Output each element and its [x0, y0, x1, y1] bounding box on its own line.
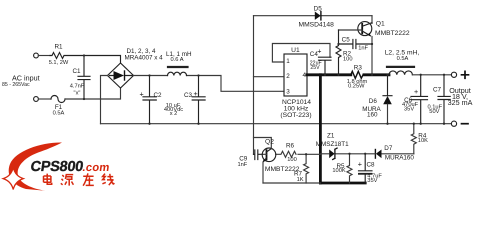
resistor R7	[304, 154, 309, 183]
svg-text:50V: 50V	[429, 109, 439, 115]
svg-text:4.7nF: 4.7nF	[70, 83, 85, 89]
svg-text:+: +	[140, 89, 144, 98]
svg-text:325 mA: 325 mA	[448, 98, 473, 107]
capacitor C5	[339, 40, 373, 49]
svg-text:Z1: Z1	[327, 132, 335, 139]
svg-text:Q2: Q2	[265, 139, 274, 146]
fuse F1	[51, 96, 65, 103]
logo chinese 线	[102, 174, 114, 186]
IC U1 NCP1014	[284, 54, 307, 96]
capacitor C4	[319, 57, 332, 75]
svg-text:160: 160	[367, 111, 378, 118]
svg-text:(SOT-223): (SOT-223)	[280, 112, 311, 119]
svg-text:0.6 A: 0.6 A	[171, 57, 184, 63]
svg-text:MRA4007 x 4: MRA4007 x 4	[125, 54, 164, 61]
bold switch rail from pin 4	[307, 73, 351, 76]
svg-text:35V: 35V	[367, 178, 377, 184]
resistor R1	[50, 53, 121, 64]
svg-text:x 2: x 2	[170, 111, 178, 117]
svg-text:MMSD4148: MMSD4148	[299, 21, 335, 28]
svg-text:+: +	[414, 87, 418, 96]
AC input terminal bottom	[34, 97, 39, 102]
svg-text:.com: .com	[82, 162, 111, 174]
logo star	[3, 168, 23, 190]
feedback wire	[382, 153, 414, 155]
svg-text:U1: U1	[291, 47, 300, 54]
svg-text:D5: D5	[314, 5, 323, 12]
svg-text:+: +	[194, 89, 198, 98]
output terminal minus	[451, 121, 456, 126]
resistor R2	[336, 30, 341, 75]
inductor L2	[389, 71, 412, 75]
svg-text:R1: R1	[54, 44, 63, 51]
svg-text:2: 2	[286, 73, 290, 80]
capacitor C9	[254, 150, 263, 160]
svg-text:C8: C8	[367, 161, 376, 168]
wire bridge minus to ground	[101, 76, 108, 124]
pin 1 wire over top to C4	[272, 44, 330, 63]
svg-text:100: 100	[343, 56, 353, 62]
svg-text:C7: C7	[433, 87, 442, 94]
logo swoosh	[9, 142, 62, 190]
svg-text:1nF: 1nF	[358, 46, 368, 52]
resistor R5	[347, 154, 352, 183]
bridge rectifier D1-D4	[108, 63, 134, 88]
plus sign	[462, 71, 469, 78]
svg-text:35V: 35V	[404, 107, 414, 113]
svg-text:MURA160: MURA160	[385, 155, 415, 162]
svg-text:Q1: Q1	[376, 21, 385, 28]
svg-text:10K: 10K	[418, 138, 428, 144]
inductor L2 core bar	[387, 66, 414, 68]
capacitor C3	[192, 76, 205, 124]
wire	[38, 98, 51, 100]
zener Z1	[329, 150, 334, 159]
CPS800 logo	[3, 142, 114, 190]
svg-text:C5: C5	[342, 36, 351, 43]
svg-text:25V: 25V	[310, 65, 320, 71]
long vertical wire D5/pin2/C9	[253, 16, 255, 155]
inductor L1	[168, 72, 187, 75]
resistor R3	[351, 71, 363, 78]
bold vertical feedback bus	[319, 75, 322, 183]
main rail	[134, 76, 285, 92]
inductor L1 core bar	[168, 66, 188, 68]
svg-text:5.1, 2W: 5.1, 2W	[49, 60, 69, 66]
svg-text:CPS800: CPS800	[29, 159, 84, 175]
svg-text:MMBT2222: MMBT2222	[375, 30, 410, 37]
diode D6 freewheel	[383, 75, 392, 96]
transistor Q2	[262, 148, 276, 162]
svg-text:R6: R6	[286, 143, 295, 150]
svg-text:+: +	[317, 46, 321, 55]
wire	[38, 55, 50, 57]
svg-text:C2: C2	[154, 92, 163, 99]
AC input terminal top	[34, 53, 39, 58]
svg-text:3: 3	[286, 89, 290, 96]
svg-text:MMSZ18T1: MMSZ18T1	[316, 141, 349, 148]
pin 2 wire	[254, 76, 285, 78]
svg-text:C3: C3	[184, 92, 193, 99]
svg-text:"x": "x"	[74, 90, 81, 96]
svg-text:0.5A: 0.5A	[53, 111, 65, 117]
svg-text:R3: R3	[354, 64, 363, 71]
svg-text:C1: C1	[72, 68, 81, 75]
capacitor C8	[359, 154, 373, 174]
capacitor C7	[438, 75, 450, 124]
wire	[65, 88, 121, 99]
bottom rail thin	[263, 182, 320, 184]
svg-text:1: 1	[286, 58, 290, 65]
diode D7	[376, 150, 382, 159]
ground rail	[101, 123, 452, 125]
logo chinese 在	[83, 173, 94, 185]
capacitor C2	[143, 76, 156, 124]
svg-text:100: 100	[287, 157, 297, 163]
logo text CPS800	[29, 159, 84, 175]
base wire Q1	[339, 29, 363, 31]
bold bottom rail	[320, 182, 365, 185]
svg-text:100K: 100K	[332, 168, 345, 174]
svg-text:D6: D6	[369, 98, 378, 105]
resistor R6	[276, 151, 296, 157]
transistor Q1	[371, 16, 373, 24]
svg-text:0.25W: 0.25W	[348, 84, 365, 90]
wire feedback row left	[298, 153, 320, 155]
svg-text:D7: D7	[384, 145, 393, 152]
Q2 collector wire	[254, 138, 272, 149]
output terminal plus	[451, 72, 456, 77]
capacitor C1	[78, 56, 90, 100]
logo chinese 源	[61, 175, 64, 185]
capacitor C6	[411, 75, 428, 124]
svg-text:85 - 265Vac: 85 - 265Vac	[2, 82, 30, 88]
svg-text:1K: 1K	[297, 177, 304, 183]
svg-text:1nF: 1nF	[237, 162, 247, 168]
logo chinese 电	[44, 173, 115, 185]
wire to output	[412, 74, 451, 76]
minus sign	[462, 123, 469, 125]
wire D7 to Z1	[335, 153, 365, 155]
logo text .com	[82, 162, 111, 174]
diode D5	[254, 15, 373, 17]
svg-text:+: +	[358, 159, 362, 168]
resistor R4	[411, 124, 416, 154]
svg-text:4: 4	[302, 72, 306, 79]
svg-text:0.5A: 0.5A	[397, 56, 409, 62]
